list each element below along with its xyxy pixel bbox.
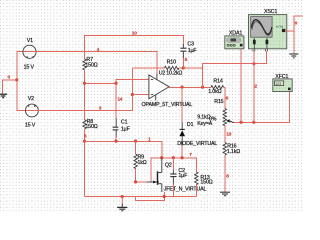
capacitor C3 bbox=[180, 42, 197, 68]
svg-text:10.2kΩ: 10.2kΩ bbox=[166, 71, 182, 77]
wire lower parallel segment bbox=[136, 192, 165, 201]
wire net 1: from node6 rail to JFET drain bbox=[85, 141, 162, 158]
svg-text:10: 10 bbox=[132, 31, 137, 37]
svg-text:R14: R14 bbox=[213, 79, 222, 85]
wire net 14: +in pickup bbox=[85, 79, 149, 83]
node junction at 16.9,80 bbox=[15, 78, 18, 81]
svg-text:15 V: 15 V bbox=[25, 122, 36, 128]
node junction gate/R9 bbox=[134, 180, 137, 183]
ground G4 bbox=[289, 54, 298, 58]
resistor R8 bbox=[83, 119, 98, 130]
wire to ground G1 bbox=[3, 80, 17, 94]
node junction R9 top bbox=[134, 140, 137, 143]
ground G2 bbox=[117, 197, 127, 211]
wire R7-R8 column bbox=[84, 70, 86, 120]
ground G1 bbox=[0, 94, 7, 98]
node junction C3 bottom at 183.4,68 bbox=[182, 66, 185, 69]
node junction at 84.6,141.3 bbox=[83, 140, 86, 143]
svg-text:OPAMP_5T_VIRTUAL: OPAMP_5T_VIRTUAL bbox=[142, 102, 193, 108]
svg-text:1.0kΩ: 1.0kΩ bbox=[208, 89, 221, 95]
wire scope A drop bbox=[253, 51, 255, 122]
svg-text:1.1kΩ: 1.1kΩ bbox=[227, 149, 240, 155]
svg-text:14: 14 bbox=[117, 96, 122, 102]
resistor R14 bbox=[208, 79, 223, 96]
node junction XDA drop bbox=[239, 121, 242, 124]
node junction at 84.6,83.4 bbox=[83, 82, 86, 85]
wire riser and scope B feed bbox=[203, 51, 267, 87]
svg-text:150Ω: 150Ω bbox=[85, 124, 97, 130]
node junction drain bbox=[160, 156, 163, 159]
svg-text:Q2: Q2 bbox=[165, 163, 172, 169]
wire R16 bottom to ground G3 bbox=[224, 155, 226, 191]
wire feedback to R10 bbox=[133, 67, 165, 69]
svg-text:Key=A: Key=A bbox=[197, 121, 213, 127]
svg-text:150Ω: 150Ω bbox=[200, 180, 212, 186]
ground G3 bbox=[220, 192, 230, 196]
wire R14 to R15 bbox=[224, 87, 225, 108]
svg-text:V1: V1 bbox=[27, 38, 33, 44]
node junction scope A drop bbox=[252, 121, 255, 124]
svg-text:R15: R15 bbox=[214, 99, 223, 105]
svg-text:C3: C3 bbox=[187, 42, 194, 48]
resistor R9 bbox=[134, 141, 147, 182]
diode D1 bbox=[177, 87, 217, 158]
wire R15 bottom to R16 bbox=[224, 126, 226, 143]
svg-text:1μF: 1μF bbox=[121, 126, 131, 132]
node junction ground tap bbox=[121, 195, 124, 198]
svg-text:D1: D1 bbox=[187, 122, 194, 128]
svg-text:C1: C1 bbox=[121, 120, 128, 126]
wire -in stub bbox=[133, 94, 149, 96]
resistor R7 bbox=[83, 57, 98, 70]
capacitor C2 bbox=[170, 158, 188, 197]
svg-text:V2: V2 bbox=[28, 96, 34, 102]
svg-text:150Ω: 150Ω bbox=[85, 62, 97, 68]
op-amp U2 bbox=[142, 74, 193, 108]
wire R10 right to riser bbox=[179, 67, 203, 69]
svg-text:DIODE_VIRTUAL: DIODE_VIRTUAL bbox=[177, 141, 217, 147]
node junction at 116.2,83.4 bbox=[114, 82, 117, 85]
node junction riser tap bbox=[201, 86, 204, 89]
node junction diode tap bbox=[180, 86, 183, 89]
wire net 4: V1 right to opamp V+ bbox=[36, 52, 157, 75]
svg-text:1kΩ: 1kΩ bbox=[138, 160, 147, 166]
capacitor C1 bbox=[113, 83, 131, 141]
svg-text:13: 13 bbox=[226, 131, 231, 137]
node junction diode bottom bbox=[180, 156, 183, 159]
wire net 7 top rail bbox=[151, 158, 196, 182]
wire net 10: R7 top across to C3 bbox=[85, 36, 184, 60]
distortion analyzer XDA1 bbox=[225, 30, 244, 48]
svg-text:1μF: 1μF bbox=[188, 48, 198, 54]
resistor R16 bbox=[223, 143, 240, 156]
svg-text:U2: U2 bbox=[159, 71, 166, 77]
wire gate line bbox=[136, 181, 147, 183]
wire XDA1 drop bbox=[240, 47, 242, 122]
node junction C1 bottom bbox=[114, 140, 117, 143]
node junction scope A crossing bbox=[252, 62, 255, 65]
wire ext trig net 0 bbox=[285, 31, 294, 54]
node junction C2 top bbox=[172, 156, 175, 159]
potentiometer R15 bbox=[197, 99, 234, 127]
wire R8 bottom down to bottom rail bbox=[84, 129, 86, 197]
resistor R10 bbox=[159, 60, 183, 77]
wire bottom rail bbox=[85, 196, 197, 198]
V2 source bbox=[25, 96, 38, 128]
node junction at 132.5,94.6 bbox=[131, 93, 134, 96]
wire output net 5 bbox=[169, 86, 211, 88]
wire wiper line to XFC1 bbox=[234, 91, 290, 122]
frequency counter XFC1 bbox=[273, 74, 292, 92]
svg-text:XSC1: XSC1 bbox=[264, 9, 277, 15]
wire net 3: V2 right up to -in and feedback bbox=[38, 68, 133, 111]
oscilloscope XSC1 bbox=[249, 9, 287, 51]
svg-text:1μF: 1μF bbox=[178, 173, 188, 179]
V1 source bbox=[23, 38, 36, 70]
node junction jfet source on rail bbox=[163, 195, 166, 198]
wire V1 left to V2 left bbox=[17, 52, 38, 111]
svg-text:ext Trig: ext Trig bbox=[276, 25, 284, 29]
svg-text:R10: R10 bbox=[167, 60, 176, 66]
svg-text:15 V: 15 V bbox=[24, 64, 35, 70]
resistor R13 bbox=[195, 172, 213, 197]
svg-text:123: 123 bbox=[275, 82, 281, 86]
transistor Q2 bbox=[147, 158, 207, 192]
svg-text:JFET_N_VIRTUAL: JFET_N_VIRTUAL bbox=[164, 186, 207, 192]
